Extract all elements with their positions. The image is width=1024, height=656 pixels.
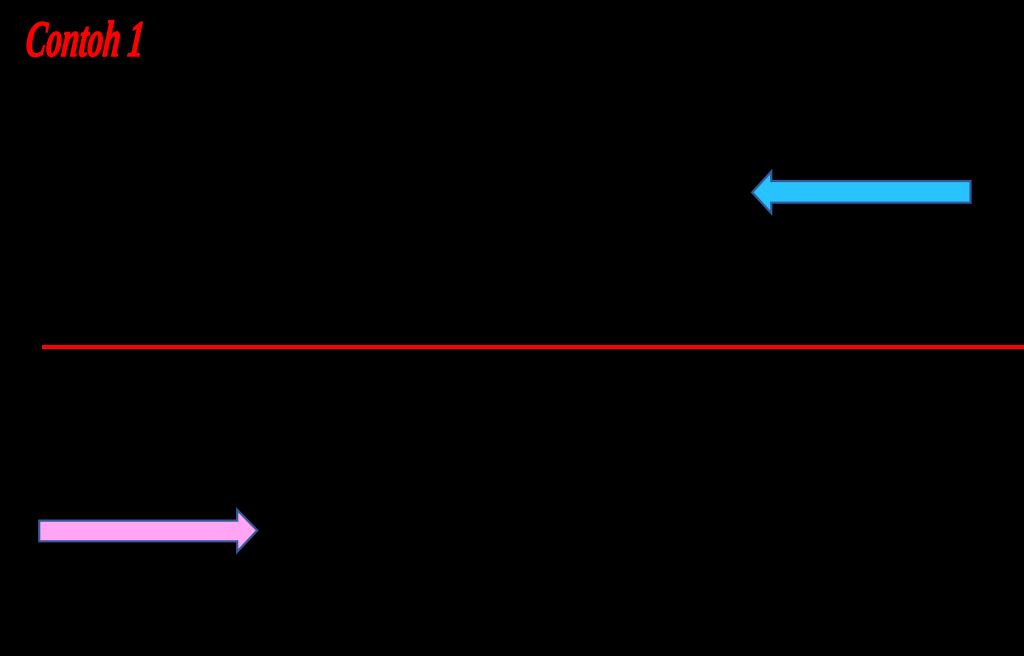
pink right arrow [37, 505, 261, 555]
title "Contoh 1" (red script) [24, 15, 147, 66]
red divider line [42, 345, 1024, 349]
blue left arrow [749, 167, 973, 217]
